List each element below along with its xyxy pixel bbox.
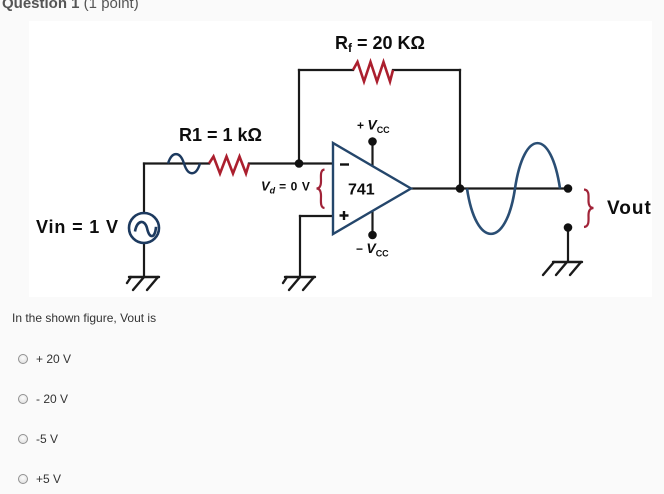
svg-text:− VCC: − VCC (356, 240, 389, 259)
svg-text:Vd = 0 V: Vd = 0 V (261, 179, 310, 196)
svg-text:Rf = 20 KΩ: Rf = 20 KΩ (335, 33, 425, 55)
svg-text:Vout: Vout (607, 198, 652, 219)
svg-text:+ VCC: + VCC (357, 117, 390, 136)
svg-text:741: 741 (348, 182, 375, 199)
svg-text:Vin = 1 V: Vin = 1 V (36, 217, 119, 237)
svg-text:R1 = 1 kΩ: R1 = 1 kΩ (179, 125, 262, 145)
